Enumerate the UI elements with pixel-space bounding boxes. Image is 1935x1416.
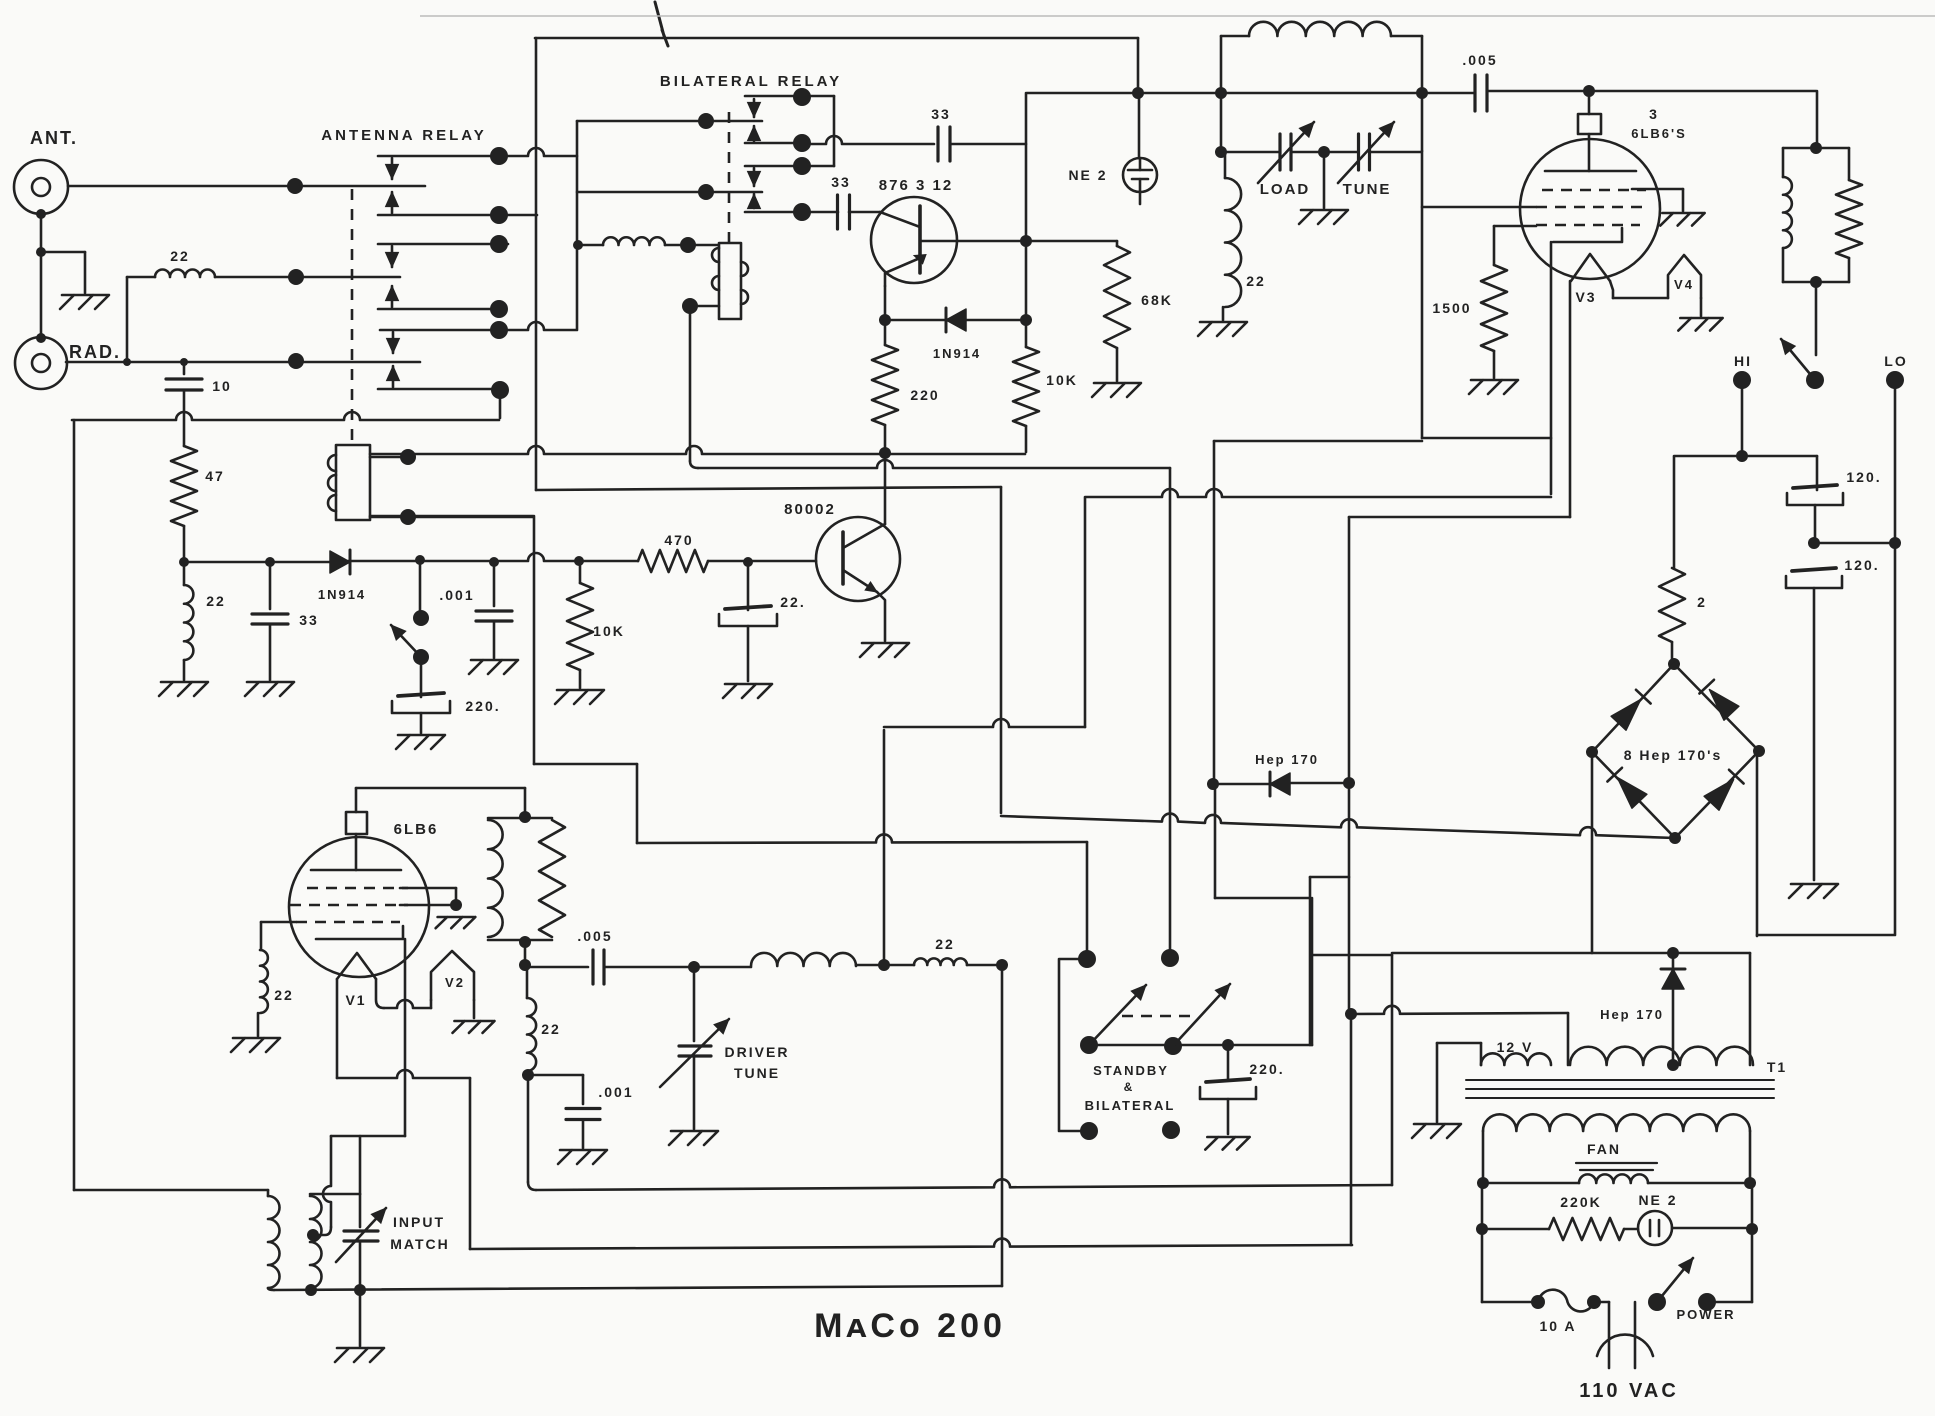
junction <box>1889 537 1901 549</box>
wire corner to bus B <box>690 461 698 468</box>
label .001 <box>439 587 474 603</box>
tube V1 plate lead <box>355 834 358 870</box>
junction below ANT <box>36 209 46 219</box>
wire x637 down <box>636 764 639 843</box>
wire to 120 cap 1 <box>1816 456 1819 490</box>
wire beam plate down <box>1550 242 1553 494</box>
junction <box>1476 1223 1488 1235</box>
svg-text:LO: LO <box>1884 353 1907 369</box>
wire to V2 <box>384 1000 431 1008</box>
wire HI bus to 2 ohm <box>1673 457 1676 568</box>
switch arm left <box>391 625 421 657</box>
wire to ground <box>493 621 496 658</box>
label 1N914 <box>933 346 981 361</box>
svg-text:MATCH: MATCH <box>390 1236 450 1252</box>
wire to .001 <box>493 562 496 606</box>
junction <box>1132 87 1144 99</box>
diode 1N914 (bilateral) <box>946 309 966 331</box>
junction <box>688 961 700 973</box>
inductor combo coil <box>1783 177 1792 248</box>
junction dot <box>680 237 696 253</box>
label & <box>1124 1080 1135 1094</box>
inductor 22 driver <box>914 958 967 965</box>
ground LOAD/TUNE <box>1299 210 1348 224</box>
ground under 120 <box>1789 884 1838 898</box>
wire x1392 <box>1391 955 1394 1185</box>
svg-text:1500: 1500 <box>1432 300 1471 316</box>
bridge diode D4 <box>1704 780 1733 811</box>
tube V1 plate cap <box>346 812 367 834</box>
inductor driver choke <box>751 953 856 966</box>
junction <box>1345 1008 1357 1020</box>
capacitor .005 driver <box>593 950 604 984</box>
inductor 22 tank <box>1225 178 1241 307</box>
svg-text:NE 2: NE 2 <box>1068 167 1107 183</box>
connector ANT jack <box>14 160 68 214</box>
junction <box>519 959 531 971</box>
label TUNE driver <box>734 1065 780 1081</box>
bridge diode D3 <box>1617 778 1646 809</box>
wire x1310 <box>1309 877 1312 1045</box>
junction <box>1318 146 1330 158</box>
wire grid3 to 1500 <box>1494 225 1536 228</box>
diode 1N914 (bilateral) bar <box>945 308 948 332</box>
wire y877 <box>1310 876 1349 879</box>
inductor combo right <box>1782 148 1785 177</box>
ground under INPUT MATCH <box>335 1348 384 1362</box>
capacitor .001 driver <box>566 1109 600 1120</box>
label 8 Hep 170's <box>1624 747 1723 763</box>
wire to standby left <box>1086 842 1089 951</box>
tube V3 plate lead <box>1588 134 1591 171</box>
junction on ANT wire <box>287 178 303 194</box>
resistor 10K right <box>1013 347 1039 426</box>
contact dot <box>490 206 508 224</box>
svg-text:470: 470 <box>664 532 693 548</box>
wire <box>1782 248 1785 282</box>
wire to Hep 170 <box>1213 783 1270 786</box>
tube V1 grid3 dashes <box>296 921 400 924</box>
relay arrow up <box>387 366 400 387</box>
transistor Q1 emitter <box>885 255 926 286</box>
label Hep 170 <box>1255 752 1319 767</box>
svg-text:1N914: 1N914 <box>318 587 366 602</box>
label 110 VAC <box>1579 1380 1679 1402</box>
wire bus y497 <box>1085 489 1551 497</box>
wire y764 <box>534 763 637 766</box>
LOAD arrow <box>1258 122 1314 183</box>
svg-text:NE 2: NE 2 <box>1638 1192 1677 1208</box>
contact dot <box>490 235 508 253</box>
bridge diode D4 bar <box>1729 770 1744 784</box>
svg-text:22: 22 <box>206 593 226 609</box>
diode 1N914 left bar <box>349 550 352 574</box>
diode Hep 170 T1 bar <box>1661 968 1685 971</box>
svg-text:STANDBY: STANDBY <box>1093 1063 1169 1078</box>
wire bus y420 <box>72 412 499 420</box>
feedthrough capacitor 22. <box>719 606 777 626</box>
label 876 3 12 <box>879 177 953 194</box>
wire x1170 standby feed <box>1169 468 1172 950</box>
capacitor .001 left <box>476 611 512 621</box>
label INPUT <box>393 1214 445 1230</box>
wire to inductor 22 <box>183 562 186 585</box>
label T1 <box>1767 1059 1787 1075</box>
svg-text:22: 22 <box>1246 273 1266 289</box>
wire tap corner <box>313 1227 331 1235</box>
label 470 <box>664 532 693 548</box>
wire LO to bridge leg <box>1757 934 1895 937</box>
label TUNE <box>1343 181 1392 198</box>
bridge diode D2 <box>1709 690 1738 721</box>
junction <box>1343 777 1355 789</box>
svg-text:10K: 10K <box>1046 372 1078 388</box>
fuse terminal <box>1531 1295 1545 1309</box>
svg-text:220K: 220K <box>1560 1194 1601 1210</box>
wire <box>578 244 603 247</box>
bridge left vertex <box>1586 746 1598 758</box>
wire <box>1594 1301 1609 1304</box>
wire V2 left leg <box>430 1000 433 1008</box>
wire bus E to bridge <box>1001 814 1675 838</box>
wire <box>1624 1228 1638 1231</box>
wire cap to bus <box>359 1241 362 1290</box>
wire <box>884 320 887 345</box>
standby common dot <box>1080 1036 1098 1054</box>
terminal HI <box>1733 371 1751 389</box>
wire <box>1672 953 1675 967</box>
wire y1014 <box>1352 1006 1568 1014</box>
wire 10K to bus A <box>1025 426 1028 452</box>
transformer primary left <box>267 1190 270 1196</box>
transistor Q2 base bar <box>841 532 845 584</box>
plug prong left <box>1608 1302 1611 1368</box>
svg-text:RAD.: RAD. <box>69 342 121 362</box>
wire bus F y843 <box>637 834 1087 843</box>
svg-text:2: 2 <box>1697 594 1707 610</box>
antenna relay contact NO1 <box>378 214 537 217</box>
wire x331 to tap <box>323 1136 331 1227</box>
ground under V2 <box>452 1021 494 1033</box>
wire V4 to ground <box>1700 298 1703 316</box>
wire corner <box>528 1182 536 1190</box>
label 10K left <box>593 623 625 639</box>
wire cap10 to resistor 47 <box>183 390 186 446</box>
wire coil to bus A <box>370 456 411 459</box>
wire left long vertical <box>73 420 76 1190</box>
svg-text:8 Hep 170's: 8 Hep 170's <box>1624 747 1723 763</box>
capacitor 33 upper <box>938 127 950 161</box>
standby contact dot <box>1161 949 1179 967</box>
antenna relay contact NC1 <box>378 148 577 156</box>
tube V3 plate cap <box>1578 114 1601 134</box>
wire x1002 long <box>1001 965 1004 1286</box>
feedthrough capacitor 120 lower <box>1786 568 1842 588</box>
wire to driver tune <box>693 967 696 1041</box>
contact dot <box>793 157 811 175</box>
feedthrough capacitor 120 upper <box>1787 485 1843 505</box>
antenna relay contact NC2 <box>378 243 508 246</box>
wire to cap 33 <box>269 562 272 609</box>
bilateral contact NC1 <box>745 95 834 98</box>
wire coil to bus D <box>370 516 533 519</box>
wire 2 to bridge <box>1671 642 1674 664</box>
fan symbol <box>1576 1163 1657 1170</box>
wire lamp bottom stub <box>1139 179 1142 204</box>
junction <box>354 1284 366 1296</box>
wire cap to base <box>849 211 880 214</box>
tube V1 grid2 dashes <box>290 904 408 907</box>
svg-text:33: 33 <box>931 106 951 122</box>
neon lamp NE2 lower <box>1638 1211 1672 1245</box>
svg-text:T1: T1 <box>1767 1059 1787 1075</box>
wire 12V to ground <box>1436 1043 1439 1122</box>
feedthrough capacitor 220 <box>392 693 450 713</box>
svg-text:33: 33 <box>831 174 851 190</box>
label .005 <box>1462 52 1497 68</box>
wire LO upper <box>1894 380 1897 543</box>
wire x1214 lower <box>1214 784 1217 898</box>
junction bus A <box>879 447 891 459</box>
bilateral contact NO2 <box>745 211 802 214</box>
wire <box>1222 307 1225 320</box>
variable capacitor INPUT MATCH <box>344 1231 378 1241</box>
label 33 left <box>299 612 319 628</box>
wire to T1 winding <box>1567 1013 1570 1065</box>
junction <box>489 557 499 567</box>
switch POWER arm <box>1657 1258 1693 1302</box>
junction <box>878 959 890 971</box>
svg-text:MᴀCᴏ 200: MᴀCᴏ 200 <box>814 1307 1006 1345</box>
label 22 <box>170 248 190 264</box>
svg-text:.005: .005 <box>1462 52 1497 68</box>
label STANDBY <box>1093 1063 1169 1078</box>
transistor Q1 base wire <box>880 212 920 227</box>
bridge diode D1 bar <box>1636 690 1651 704</box>
coil bottom dot <box>682 298 698 314</box>
wire 1500 to ground <box>1493 351 1496 378</box>
svg-text:6LB6'S: 6LB6'S <box>1631 126 1687 141</box>
wire HI down <box>1741 380 1744 456</box>
capacitor 33 lower <box>838 195 850 229</box>
label 1N914 left <box>318 587 366 602</box>
transistor Q2 emitter lead <box>877 592 885 641</box>
wire x1214 down <box>1213 441 1216 784</box>
wire to 22. cap <box>747 562 750 610</box>
wire <box>1482 1301 1538 1304</box>
wire to 1500 <box>1493 226 1496 265</box>
svg-text:22: 22 <box>170 248 190 264</box>
wire y1136 <box>331 1135 405 1138</box>
label V1 <box>345 992 366 1008</box>
switch common dot <box>1806 371 1824 389</box>
svg-text:FAN: FAN <box>1587 1141 1621 1157</box>
relay arrow up <box>386 192 399 213</box>
junction <box>519 936 531 948</box>
wire plate cap stem <box>355 788 358 812</box>
svg-text:6LB6: 6LB6 <box>394 821 439 838</box>
standby link dashes <box>1122 1015 1196 1018</box>
bridge bottom-left side <box>1592 752 1675 838</box>
wire top bus <box>535 37 1138 40</box>
wire standby common <box>1089 1044 1312 1047</box>
svg-text:220.: 220. <box>465 698 500 714</box>
svg-text:22: 22 <box>274 987 294 1003</box>
label V4 <box>1674 277 1694 292</box>
wire 12V lead <box>1437 1042 1481 1045</box>
wire <box>1751 1229 1754 1302</box>
wire grid3 ext <box>261 921 296 924</box>
junction <box>574 556 584 566</box>
wire RAD to cap 10 <box>183 362 186 374</box>
bridge top vertex <box>1668 658 1680 670</box>
resistor combo V1 <box>539 820 565 937</box>
bridge diode D1 <box>1611 700 1640 731</box>
wire contact stub <box>499 392 502 418</box>
label 220. standby <box>1249 1061 1284 1077</box>
svg-text:V3: V3 <box>1575 289 1596 305</box>
wire cap33 to ground <box>269 624 272 680</box>
tube V4 chevron <box>1668 255 1701 298</box>
wire to ground <box>1323 152 1326 208</box>
label 12 V <box>1497 1039 1534 1055</box>
tube V1 grid1 dashes <box>307 887 408 890</box>
svg-text:220: 220 <box>910 387 939 403</box>
tube V3 envelope <box>1520 139 1660 279</box>
feedthrough capacitor 220 standby <box>1200 1079 1256 1099</box>
svg-text:LOAD: LOAD <box>1260 181 1311 198</box>
wire tank left <box>1220 36 1223 152</box>
antenna relay contact NO2 <box>378 308 505 311</box>
label 1500 <box>1432 300 1471 316</box>
ground under 10K <box>555 690 604 704</box>
fuse terminal <box>1587 1295 1601 1309</box>
ground under 22 choke <box>1198 322 1247 336</box>
neon lamp NE2 <box>1123 158 1157 192</box>
svg-text:HI: HI <box>1734 353 1752 369</box>
wire y1078 <box>337 1070 470 1078</box>
label 10 A <box>1539 1318 1576 1334</box>
junction <box>1207 778 1219 790</box>
relay coil antenna <box>336 445 370 520</box>
contact dot <box>793 88 811 106</box>
diode 1N914 left <box>330 551 350 573</box>
contact dot <box>793 134 811 152</box>
wire to INPUT MATCH <box>359 1194 362 1227</box>
label 10K <box>1046 372 1078 388</box>
junction <box>1222 1039 1234 1051</box>
svg-text:V1: V1 <box>345 992 366 1008</box>
capacitor 33 left <box>252 614 288 624</box>
wire collector row <box>957 240 1117 243</box>
wire y898 <box>1215 897 1310 900</box>
antenna relay contact NC3 <box>380 322 577 330</box>
relay arrow down <box>387 332 400 353</box>
wire <box>1116 241 1119 246</box>
junction <box>1810 276 1822 288</box>
wire combo bottom <box>1783 281 1849 284</box>
transformer T1 secondary winding <box>1483 1114 1750 1131</box>
standby left bracket <box>1059 959 1089 1131</box>
wire 120 junction to LO line <box>1814 542 1895 545</box>
wire bus D y516 <box>370 515 533 518</box>
label MATCH <box>390 1236 450 1252</box>
wire <box>1391 35 1422 38</box>
label MaCo 200 <box>814 1307 1006 1345</box>
plug prong right <box>1634 1302 1637 1368</box>
ground Q2 emitter <box>860 643 909 657</box>
svg-text:3: 3 <box>1649 106 1659 122</box>
contact dot <box>490 147 508 165</box>
inductor 22 V1 <box>260 950 268 1013</box>
wire standby common up <box>1311 898 1314 1045</box>
switch pivot dot <box>413 649 429 665</box>
wire <box>1221 151 1280 154</box>
wire bus y1190 <box>536 1179 1392 1190</box>
resistor 2 <box>1659 568 1685 642</box>
svg-text:120.: 120. <box>1846 469 1881 485</box>
label ANTENNA RELAY <box>321 127 486 144</box>
label HI <box>1734 353 1752 369</box>
wire to ground <box>420 713 423 733</box>
diode Hep 170 T1 <box>1662 969 1684 989</box>
svg-text:220.: 220. <box>1249 1061 1284 1077</box>
wire y953 <box>1392 952 1750 955</box>
bridge top-right side <box>1674 664 1759 751</box>
junction <box>1020 314 1032 326</box>
wire fan row right <box>1648 1182 1750 1185</box>
wire x405 beam to tap <box>404 939 407 1136</box>
plug dome <box>1597 1335 1653 1356</box>
transistor Q2 80002 <box>816 517 900 601</box>
diode Hep 170 mid <box>1270 773 1290 795</box>
contact dot <box>490 300 508 318</box>
svg-text:.001: .001 <box>439 587 474 603</box>
label .005 driver <box>577 928 612 944</box>
svg-text:ANTENNA RELAY: ANTENNA RELAY <box>321 127 486 144</box>
label LO <box>1884 353 1907 369</box>
wire to transformer <box>74 1189 268 1192</box>
neon lamp NE2 electrodes <box>1128 170 1152 179</box>
wire x1349 long vertical <box>1348 517 1351 1014</box>
label Hep 170 T1 <box>1600 1007 1664 1022</box>
svg-text:47: 47 <box>205 468 225 484</box>
wire y441 <box>1214 440 1422 443</box>
resistor 220K <box>1549 1218 1624 1240</box>
label 10 <box>212 378 232 394</box>
wire grid1 ext <box>400 887 456 890</box>
wire to ground branch <box>41 251 85 254</box>
junction <box>265 557 275 567</box>
label 22 vert <box>541 1021 561 1037</box>
wire to ground <box>257 1013 260 1036</box>
wire grid2 ext <box>400 904 456 907</box>
wire <box>1751 1183 1754 1229</box>
variable capacitor TUNE <box>1359 134 1370 170</box>
wire x1349 lower <box>1350 1014 1353 1245</box>
svg-text:.001: .001 <box>598 1084 633 1100</box>
svg-text:DRIVER: DRIVER <box>725 1044 790 1060</box>
wire NO1 to cap 33 <box>802 136 934 144</box>
junction <box>123 358 131 366</box>
wire x1026 vertical <box>1025 93 1028 347</box>
switch HI/LO arm <box>1781 339 1815 380</box>
wire to diode 1N914 <box>885 319 946 322</box>
label DRIVER <box>725 1044 790 1060</box>
label ANT. <box>30 128 78 148</box>
wire RAD to relay <box>66 361 420 364</box>
ground grid2 V3 <box>1660 213 1704 226</box>
